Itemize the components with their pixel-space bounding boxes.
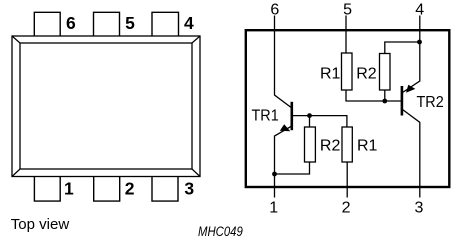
package outline inner bbox=[20, 43, 192, 169]
pin 4 pad bbox=[152, 12, 179, 36]
node: emitter/R2/pin1 junction bbox=[272, 172, 277, 177]
svg-text:5: 5 bbox=[125, 13, 135, 33]
package bevel corner bottom-left bbox=[12, 169, 20, 177]
package bevel corner bottom-right bbox=[192, 169, 200, 177]
transistor TR1 base bar bbox=[290, 102, 293, 130]
pin 3 pad bbox=[152, 177, 178, 202]
svg-text:1: 1 bbox=[64, 179, 74, 199]
svg-text:5: 5 bbox=[343, 2, 352, 19]
package bevel corner top-right bbox=[192, 36, 200, 43]
svg-text:R2: R2 bbox=[356, 65, 377, 82]
equivalent-circuit box bbox=[246, 30, 449, 187]
transistor TR2 base bar bbox=[401, 86, 404, 116]
wire: R1 lower bottom to pin 2 lead bbox=[346, 162, 348, 198]
svg-text:2: 2 bbox=[125, 179, 135, 199]
svg-text:Top view: Top view bbox=[11, 216, 70, 233]
node: R2/pin4 junction bbox=[417, 40, 422, 45]
package outline outer (top view) bbox=[12, 36, 200, 177]
svg-text:R2: R2 bbox=[320, 137, 341, 154]
svg-text:MHC049: MHC049 bbox=[198, 224, 243, 239]
package bevel corner top-left bbox=[12, 36, 20, 43]
wire: TR1 base to lower resistors node bbox=[293, 116, 347, 127]
svg-text:R1: R1 bbox=[320, 65, 341, 82]
wire: R2 upper top to pin 4 line bbox=[385, 42, 420, 54]
pin 2 pad bbox=[94, 177, 120, 202]
svg-text:3: 3 bbox=[415, 200, 424, 217]
TR1 emitter arrow (PNP, points to base bar) bbox=[280, 124, 291, 131]
wire: pin 6 lead + TR1 collector bbox=[275, 16, 292, 109]
svg-text:3: 3 bbox=[184, 179, 194, 199]
wire: node to R2 top bbox=[309, 116, 311, 127]
node: TR2 base junction bbox=[382, 99, 387, 104]
svg-text:TR2: TR2 bbox=[417, 94, 444, 111]
svg-text:4: 4 bbox=[184, 13, 194, 33]
TR2 emitter arrow (PNP, points to base bar) bbox=[406, 85, 415, 93]
pin 1 pad bbox=[34, 177, 60, 202]
resistor R1 (lower) bbox=[342, 127, 352, 162]
pin 5 pad bbox=[94, 12, 120, 36]
svg-text:TR1: TR1 bbox=[252, 107, 279, 124]
node: TR1 base junction bbox=[307, 113, 312, 118]
resistor R1 (upper) bbox=[342, 53, 353, 90]
svg-text:R1: R1 bbox=[357, 137, 378, 154]
wire: TR1 emitter + pin 1 lead bbox=[275, 126, 292, 198]
wire: R1 upper bottom to TR2 base bbox=[346, 90, 401, 101]
svg-text:6: 6 bbox=[66, 13, 76, 33]
wire: R2 lower bottom to emitter node bbox=[275, 162, 310, 174]
wire: TR2 collector + pin 3 lead bbox=[403, 110, 420, 198]
resistor R2 (upper) bbox=[380, 54, 391, 91]
resistor R2 (lower) bbox=[305, 127, 316, 162]
wire: pin 4 lead + TR2 emitter bbox=[403, 16, 420, 93]
wire: pin 5 lead to R1 top bbox=[345, 16, 347, 54]
wire: R2 upper bottom lead bbox=[384, 90, 386, 101]
pin 6 pad bbox=[34, 12, 60, 36]
svg-text:2: 2 bbox=[342, 200, 351, 217]
svg-text:1: 1 bbox=[269, 200, 278, 217]
